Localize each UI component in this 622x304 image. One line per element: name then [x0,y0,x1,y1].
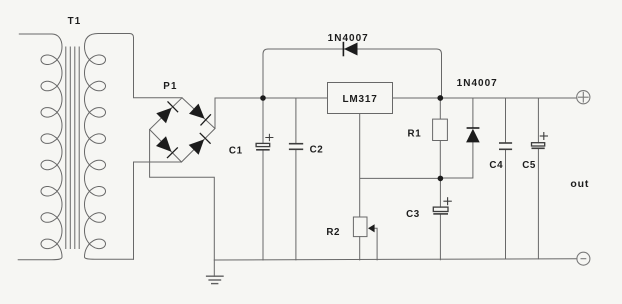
bottom rail [214,259,577,260]
wire secondary top to bridge top vertex [130,34,183,98]
wire bridge left vertex to ground riser [150,130,215,277]
transformer T1 secondary winding [85,34,134,260]
capacitor C2 plates [289,144,303,150]
R2 wiper arrowhead [368,224,375,232]
top rail [215,97,577,99]
bridge diode P1 L-B [156,136,171,152]
regulator U1 LM317 body [328,83,393,114]
wire C1 leads [262,98,264,260]
resistor R1 body [433,119,448,140]
output terminal plus [577,91,590,104]
svg-text:R1: R1 [408,129,422,140]
wire R2 wiper to ground rail [374,228,378,260]
wire C2 leads [295,98,297,260]
svg-text:C1: C1 [229,146,243,157]
svg-text:C4: C4 [489,160,503,171]
output terminal minus [577,252,590,265]
wire secondary bottom to bridge bottom vertex [134,162,182,259]
bridge diode P1 T-R [189,104,205,119]
top protection branch wire [263,49,442,98]
wire C4 leads [505,98,507,259]
svg-text:C5: C5 [522,160,536,171]
wire D2 leads [440,98,473,178]
diode D1 1N4007 top [344,43,358,56]
bridge diode P1 B-R [189,139,204,154]
wire R1 top lead [439,98,441,119]
ground symbol [206,276,224,283]
junction node dot LM317 output [437,95,443,101]
svg-text:P1: P1 [163,81,177,92]
svg-text:C3: C3 [406,209,420,220]
transformer core [65,47,67,249]
svg-text:T1: T1 [68,16,82,27]
wire R1 bottom lead [439,141,441,179]
svg-text:R2: R2 [326,227,340,238]
capacitor C1 plates [256,134,273,150]
diode D2 1N4007 right [466,129,480,143]
bridge diode P1 L-T [156,108,171,123]
svg-text:out: out [570,178,589,190]
transformer T1 primary winding [18,34,62,260]
svg-text:C2: C2 [310,145,324,156]
potentiometer R2 body [353,217,367,237]
junction node dot C1/top-branch [260,95,266,101]
wire LM317 ADJ to node [360,114,441,218]
svg-text:1N4007: 1N4007 [457,78,498,89]
bridge P1 diamond edges [150,98,215,162]
capacitor C3 plates [433,197,452,214]
capacitor C4 plates [499,143,512,149]
wire R2 bottom lead [359,237,361,260]
wire bridge right vertex to rail [214,98,216,129]
svg-text:LM317: LM317 [342,94,377,105]
junction node dot ADJ [438,176,444,182]
wire C5 leads [537,98,539,259]
capacitor C5 plates [532,132,549,148]
wire C3 leads [439,178,441,259]
svg-text:1N4007: 1N4007 [328,33,369,44]
